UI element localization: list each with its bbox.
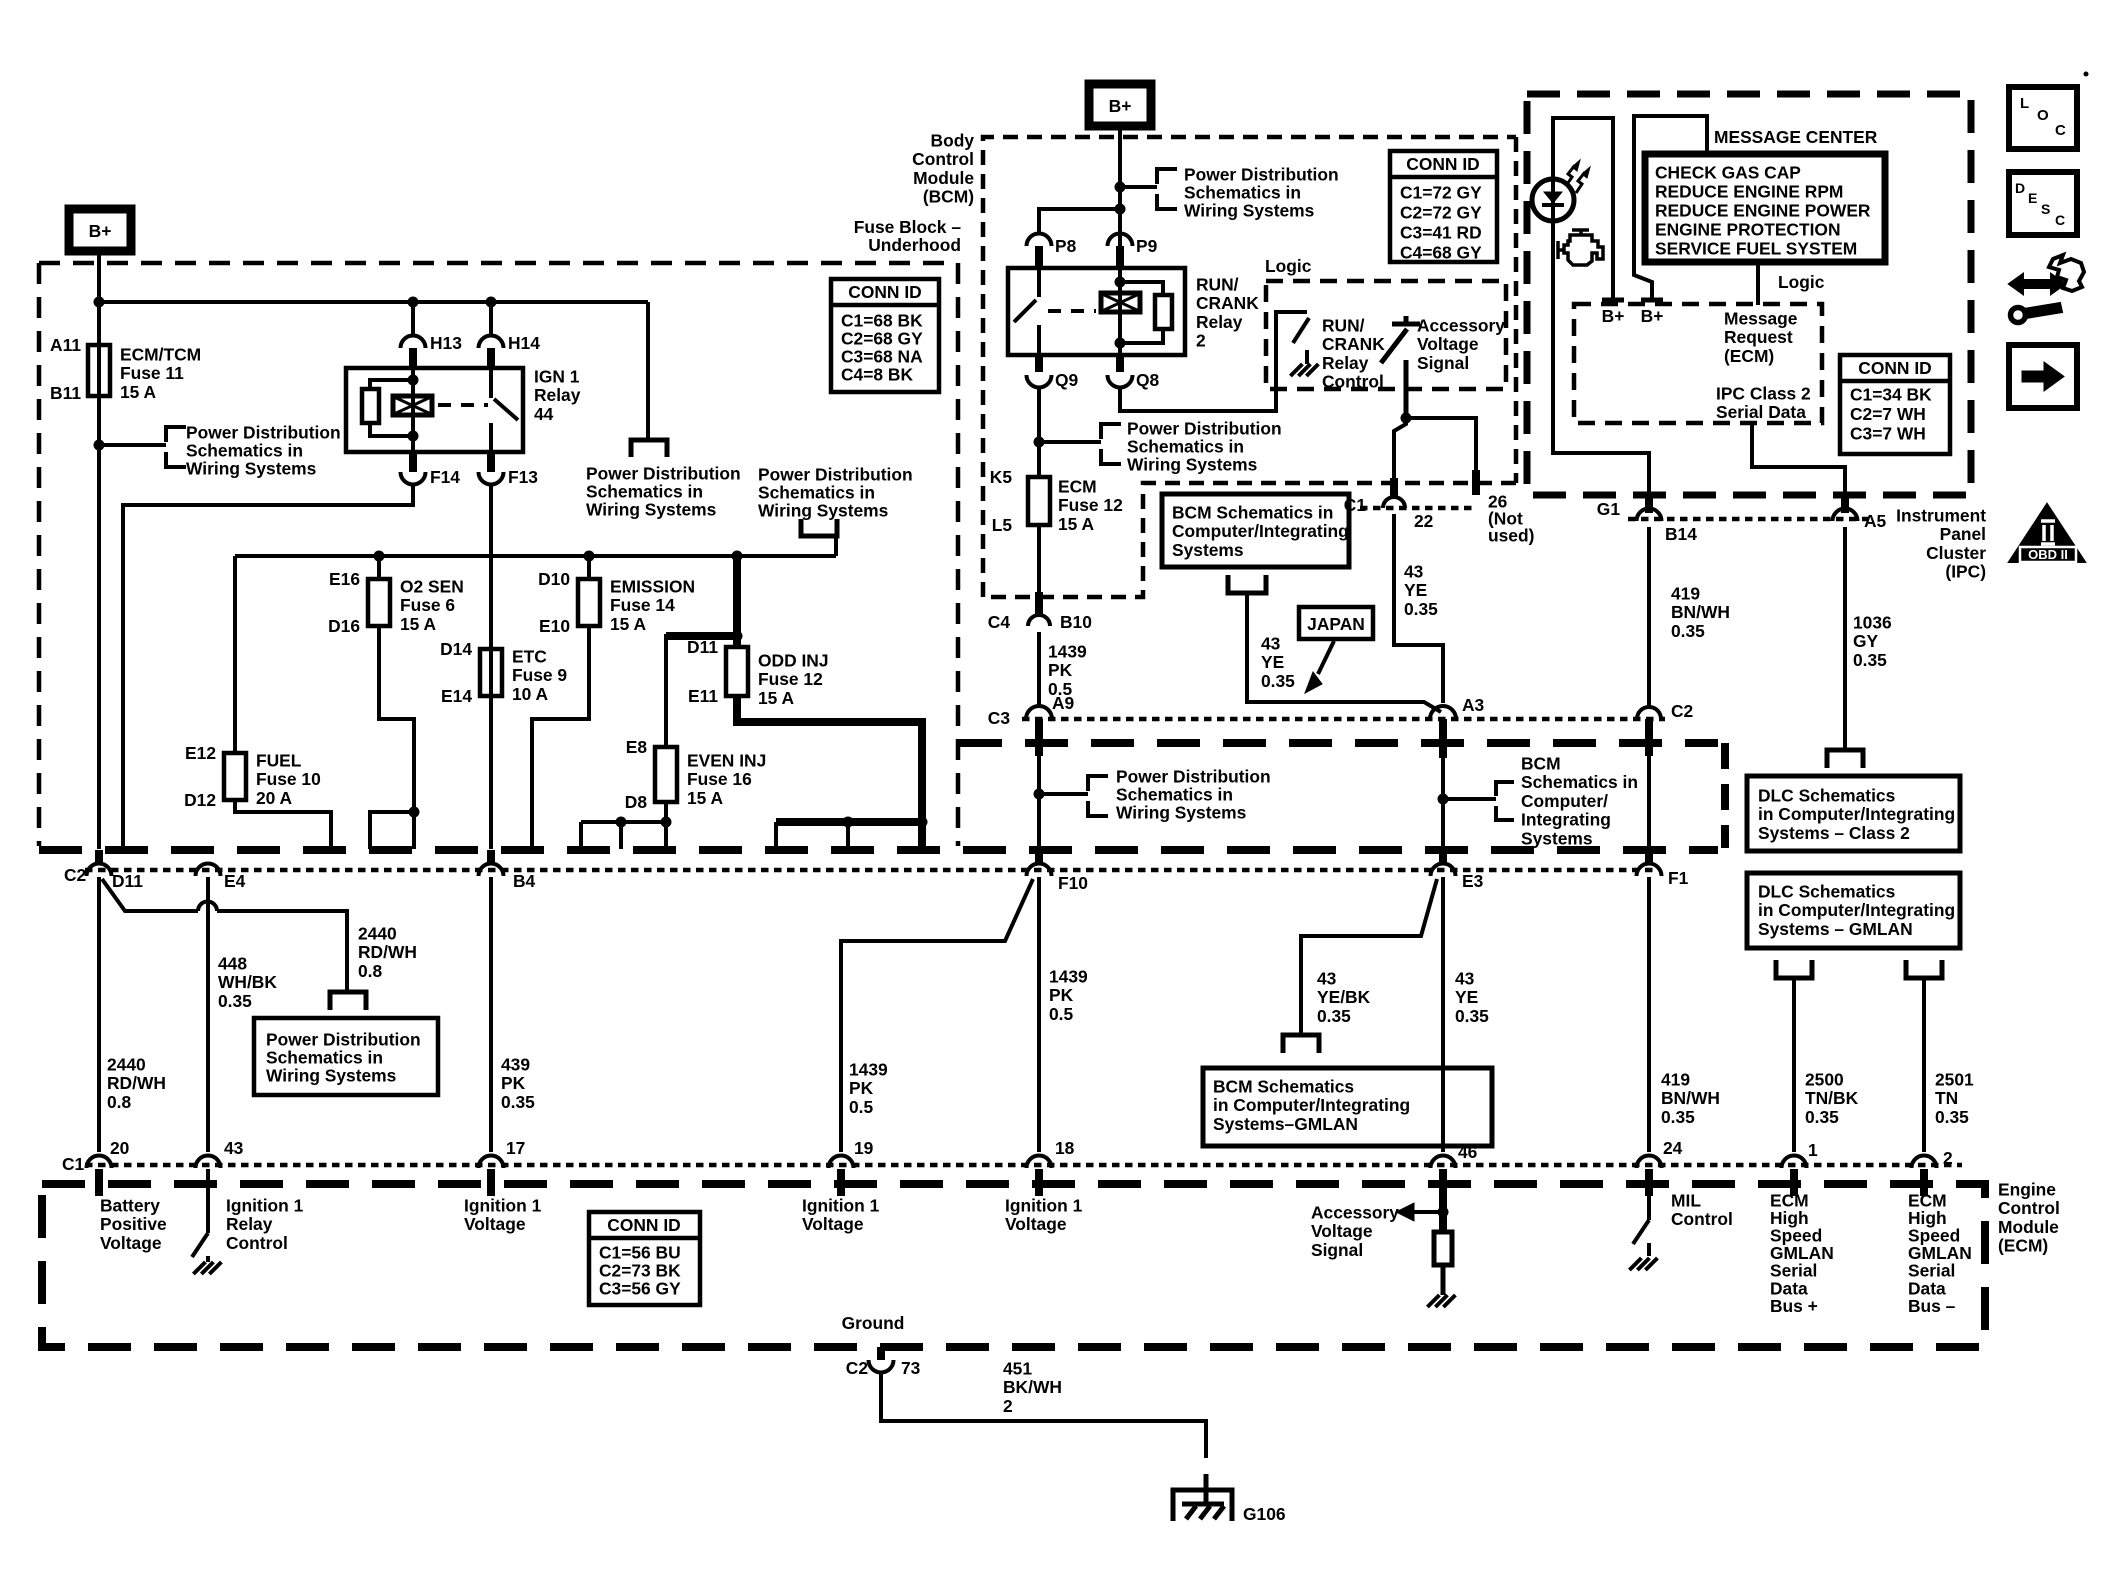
svg-text:C: C xyxy=(2055,122,2066,139)
svg-text:Power Distribution: Power Distribution xyxy=(1127,418,1282,438)
svg-text:H14: H14 xyxy=(508,333,540,353)
svg-text:A3: A3 xyxy=(1462,695,1485,715)
connector C1 pin 22 xyxy=(1390,478,1398,499)
svg-text:IGN 1: IGN 1 xyxy=(534,366,580,386)
icon: LOC box xyxy=(2009,87,2077,149)
svg-text:used): used) xyxy=(1488,525,1534,545)
relay coil (crossed box) xyxy=(1101,293,1140,312)
dotted connector row: junction block upper row C2 (D11,E4,B4,F10,E3,F1) xyxy=(85,868,1655,873)
wire: B+ down to bus xyxy=(97,251,101,302)
svg-text:B+: B+ xyxy=(1641,306,1664,326)
callout box JAPAN xyxy=(1299,607,1373,639)
svg-text:Fuse 12: Fuse 12 xyxy=(758,669,823,689)
svg-text:H13: H13 xyxy=(430,333,462,353)
wire: Q8 to logic run/crank relay control xyxy=(1120,312,1307,411)
svg-text:Message: Message xyxy=(1724,308,1798,328)
wire: accessory voltage signal inside ECM xyxy=(1439,1196,1447,1232)
svg-text:1036: 1036 xyxy=(1853,612,1892,632)
svg-text:1439: 1439 xyxy=(849,1059,888,1079)
staple: bus feed from power distribution xyxy=(801,519,837,536)
connector table CONN ID (BCM) xyxy=(1390,151,1497,262)
svg-text:0.35: 0.35 xyxy=(1317,1006,1351,1026)
svg-text:CRANK: CRANK xyxy=(1322,334,1385,354)
icon: data link connector glyph xyxy=(2009,274,2065,294)
bracket: power distribution pointer (BCM top) xyxy=(1157,169,1177,184)
node: accessory arrow tap xyxy=(1438,1207,1449,1218)
svg-text:C2=68 GY: C2=68 GY xyxy=(841,328,923,348)
connector pin 24 xyxy=(1637,1155,1662,1168)
staple: DLC GMLAN bus + output xyxy=(1776,960,1812,978)
icon: OBD II triangle xyxy=(2009,504,2085,562)
svg-text:C1=68 BK: C1=68 BK xyxy=(841,310,923,330)
svg-text:20 A: 20 A xyxy=(256,788,293,808)
svg-text:in Computer/Integrating: in Computer/Integrating xyxy=(1758,804,1955,824)
relay switch fixed contact to F13 xyxy=(489,423,493,451)
wire: resistor to ground xyxy=(1441,1265,1446,1295)
connector C4/B10 xyxy=(1035,592,1043,614)
heavy dashed bottom boundary of fuse block / BCM pass-through strip xyxy=(39,846,1718,854)
svg-text:Fuse Block –: Fuse Block – xyxy=(854,217,962,237)
svg-text:RD/WH: RD/WH xyxy=(358,942,417,962)
wire: E3 diagonal branch to BCM GMLAN staple xyxy=(1301,879,1437,1033)
svg-text:Cluster: Cluster xyxy=(1926,543,1986,563)
svg-text:D10: D10 xyxy=(538,569,570,589)
ground G106 symbol xyxy=(1173,1490,1232,1521)
engine icon xyxy=(1572,228,1589,232)
svg-text:2500: 2500 xyxy=(1805,1069,1844,1089)
svg-text:0.5: 0.5 xyxy=(849,1097,874,1117)
svg-text:C2=7 WH: C2=7 WH xyxy=(1850,404,1926,424)
svg-text:CONN ID: CONN ID xyxy=(1406,154,1479,174)
node: tap to power distribution bracket xyxy=(94,440,105,451)
svg-text:Schematics in: Schematics in xyxy=(1116,784,1233,804)
heavy dashed top of BCM pass-through strip xyxy=(959,739,1718,747)
svg-text:P9: P9 xyxy=(1136,236,1158,256)
svg-text:Module: Module xyxy=(913,168,974,188)
svg-text:OBD II: OBD II xyxy=(2028,547,2068,562)
wire: even out bar xyxy=(581,820,666,824)
svg-text:Ignition 1: Ignition 1 xyxy=(464,1195,542,1215)
svg-text:YE: YE xyxy=(1404,580,1427,600)
svg-text:EVEN INJ: EVEN INJ xyxy=(687,750,766,770)
connector E4 on junction row xyxy=(196,864,221,877)
svg-text:Power Distribution: Power Distribution xyxy=(266,1029,421,1049)
wire: EMISSION out jog xyxy=(532,626,589,849)
switch: ignition 1 relay control driver xyxy=(206,1169,210,1233)
svg-text:0.35: 0.35 xyxy=(501,1092,535,1112)
wire: E4 down to ECM pin 43 xyxy=(206,877,210,1152)
svg-text:Relay: Relay xyxy=(1322,353,1369,373)
node: EVEN INJ branch xyxy=(732,631,743,642)
svg-text:1: 1 xyxy=(1808,1140,1818,1160)
svg-text:Wiring Systems: Wiring Systems xyxy=(1116,802,1246,822)
svg-text:Voltage: Voltage xyxy=(1311,1221,1373,1241)
svg-text:P8: P8 xyxy=(1055,236,1077,256)
svg-text:73: 73 xyxy=(901,1358,921,1378)
svg-text:E10: E10 xyxy=(539,616,570,636)
staple: to DLC class 2 schematics xyxy=(1827,750,1863,768)
svg-text:A9: A9 xyxy=(1052,693,1075,713)
connector G1/B14 xyxy=(1645,493,1653,513)
staple: DLC GMLAN bus - output xyxy=(1906,960,1942,978)
connector pin 2 xyxy=(1912,1155,1937,1168)
svg-text:Fuse 9: Fuse 9 xyxy=(512,665,567,685)
svg-text:Schematics in: Schematics in xyxy=(266,1047,383,1067)
svg-text:Voltage: Voltage xyxy=(100,1233,162,1253)
wire: serial data to A5 xyxy=(1752,423,1845,496)
wire: D11 diagonal branch to E4 bus xyxy=(102,879,198,911)
svg-text:C4: C4 xyxy=(988,612,1011,632)
wire: C3 down to F10 xyxy=(1037,754,1041,864)
svg-text:Schematics in: Schematics in xyxy=(186,440,303,460)
svg-text:Computer/Integrating: Computer/Integrating xyxy=(1172,521,1349,541)
svg-text:in Computer/Integrating: in Computer/Integrating xyxy=(1758,900,1955,920)
accessory voltage signal switch symbol xyxy=(1392,322,1420,327)
svg-text:18: 18 xyxy=(1055,1138,1075,1158)
svg-text:B11: B11 xyxy=(50,383,81,403)
relay switch blade xyxy=(494,399,518,420)
svg-text:(ECM): (ECM) xyxy=(1998,1236,2048,1256)
wire: A5 down to DLC staple xyxy=(1843,527,1847,749)
svg-text:Positive: Positive xyxy=(100,1214,167,1234)
bracket: power distribution pointer (junction strip) xyxy=(1088,776,1108,791)
node: even bar junction xyxy=(661,817,672,828)
connector pin 19 xyxy=(829,1155,854,1168)
svg-text:0.35: 0.35 xyxy=(1455,1006,1489,1026)
svg-text:2501: 2501 xyxy=(1935,1069,1974,1089)
svg-text:L5: L5 xyxy=(992,515,1013,535)
svg-text:Serial Data: Serial Data xyxy=(1716,402,1806,422)
svg-text:Fuse 6: Fuse 6 xyxy=(400,595,455,615)
svg-text:BCM: BCM xyxy=(1521,753,1561,773)
svg-text:Power Distribution: Power Distribution xyxy=(758,464,913,484)
node: accessory branch xyxy=(1401,413,1412,424)
dotted connector row: BCM C1 pins 22/26 xyxy=(1360,506,1472,511)
wire: bus- down to ECM pin 2 xyxy=(1922,978,1926,1152)
svg-text:G1: G1 xyxy=(1597,499,1621,519)
svg-text:E11: E11 xyxy=(688,686,718,706)
svg-text:0.35: 0.35 xyxy=(1853,650,1887,670)
connector C2 pin 73 (ground) xyxy=(877,1347,885,1360)
LED light arrows xyxy=(1566,165,1575,186)
svg-text:22: 22 xyxy=(1414,511,1433,531)
svg-text:Wiring Systems: Wiring Systems xyxy=(586,499,716,519)
wire: ground lower stub xyxy=(1204,1474,1209,1492)
wire: bus drop to off-page staple xyxy=(646,302,650,440)
svg-text:C3=41 RD: C3=41 RD xyxy=(1400,222,1482,242)
merge bump at E4 wire xyxy=(198,902,217,912)
arrow: JAPAN callout xyxy=(1318,641,1334,674)
svg-text:43: 43 xyxy=(1317,968,1337,988)
svg-text:0.8: 0.8 xyxy=(107,1092,132,1112)
relay linkage dashes xyxy=(1048,309,1096,313)
staple: E4 branch to power distribution box xyxy=(330,992,366,1010)
fuse F14e EMISSION 15A (D10/E10) xyxy=(587,556,591,579)
node: tap to PDS bracket xyxy=(1115,182,1126,193)
svg-text:1439: 1439 xyxy=(1048,641,1087,661)
svg-text:BCM Schematics in: BCM Schematics in xyxy=(1172,502,1333,522)
icon: right arrow box xyxy=(2009,345,2077,408)
svg-text:Systems – GMLAN: Systems – GMLAN xyxy=(1758,919,1913,939)
module box: Instrument Panel Cluster IPC (heavy dashed) xyxy=(1527,94,1971,495)
svg-text:Control: Control xyxy=(226,1233,288,1253)
svg-text:1439: 1439 xyxy=(1049,966,1088,986)
svg-text:BN/WH: BN/WH xyxy=(1671,602,1730,622)
svg-text:YE: YE xyxy=(1261,652,1284,672)
svg-text:Computer/: Computer/ xyxy=(1521,791,1608,811)
module box: Engine Control Module ECM (heavy dashed) xyxy=(42,1184,1985,1347)
svg-text:Logic: Logic xyxy=(1778,272,1825,292)
staple: BCM schematics pointer xyxy=(1228,575,1266,593)
svg-text:C1=34 BK: C1=34 BK xyxy=(1850,384,1932,404)
svg-text:Logic: Logic xyxy=(1265,256,1312,276)
svg-text:Q8: Q8 xyxy=(1136,370,1160,390)
svg-text:0.8: 0.8 xyxy=(358,961,383,981)
svg-text:E8: E8 xyxy=(626,737,648,757)
resistor: accessory pull xyxy=(1434,1232,1452,1265)
node: coil bottom xyxy=(408,431,419,442)
wire: E4 horizontal to PDS drop xyxy=(217,911,347,990)
svg-text:MIL: MIL xyxy=(1671,1190,1701,1210)
wire: accessory to C1 pin 22 xyxy=(1394,418,1406,478)
svg-text:C1: C1 xyxy=(62,1154,85,1174)
svg-text:Wiring Systems: Wiring Systems xyxy=(758,500,888,520)
svg-text:B+: B+ xyxy=(1109,96,1132,116)
run/crank relay control switch blade xyxy=(1293,318,1309,343)
svg-text:Relay: Relay xyxy=(1196,312,1243,332)
svg-text:43: 43 xyxy=(1404,561,1424,581)
connector F13 xyxy=(487,452,495,472)
wire: FUEL fuse column xyxy=(233,556,237,753)
svg-text:D11: D11 xyxy=(687,637,718,657)
connector table CONN ID (fuse block) xyxy=(831,279,939,392)
wire: A3 down to E3 xyxy=(1441,756,1445,864)
svg-text:G106: G106 xyxy=(1243,1504,1286,1524)
svg-text:O: O xyxy=(2037,107,2049,124)
connector F1 xyxy=(1645,850,1653,864)
svg-text:15 A: 15 A xyxy=(400,614,437,634)
svg-text:MESSAGE CENTER: MESSAGE CENTER xyxy=(1714,127,1878,147)
connector B4 on junction row xyxy=(487,850,495,864)
svg-text:Accessory: Accessory xyxy=(1311,1202,1399,1222)
svg-text:C2=72 GY: C2=72 GY xyxy=(1400,202,1482,222)
connector C2/D11 on junction row xyxy=(95,850,103,864)
svg-text:EMISSION: EMISSION xyxy=(610,576,695,596)
wire: IPC B+ 1 riser with LED xyxy=(1553,118,1649,496)
svg-text:Schematics in: Schematics in xyxy=(1184,182,1301,202)
svg-text:DLC Schematics: DLC Schematics xyxy=(1758,881,1895,901)
wire: branch to P8 xyxy=(1039,209,1120,234)
node: EMISSION tap xyxy=(584,551,595,562)
fuse F16 EVEN INJ 15A (E8/D8) xyxy=(655,747,677,802)
relay coil (crossed box) xyxy=(393,396,432,415)
svg-text:Engine: Engine xyxy=(1998,1179,2056,1199)
svg-text:Ground: Ground xyxy=(842,1313,905,1333)
svg-text:43: 43 xyxy=(1261,633,1281,653)
svg-text:S: S xyxy=(2041,201,2050,217)
wire: H13 drop xyxy=(411,302,415,336)
svg-text:0.5: 0.5 xyxy=(1049,1004,1074,1024)
svg-text:Panel: Panel xyxy=(1940,524,1986,544)
svg-text:Voltage: Voltage xyxy=(464,1214,526,1234)
svg-text:E: E xyxy=(2028,190,2037,206)
svg-text:Power Distribution: Power Distribution xyxy=(186,422,341,442)
svg-text:C2: C2 xyxy=(1671,701,1693,721)
wire: B4 down to ECM pin 17 xyxy=(489,877,493,1152)
indicator LED (MIL) circle xyxy=(1532,179,1574,221)
svg-text:15 A: 15 A xyxy=(120,382,157,402)
connector P9 xyxy=(1108,234,1133,247)
svg-text:RUN/: RUN/ xyxy=(1196,274,1239,294)
wire: FUEL fuse out xyxy=(235,800,331,849)
fuse F12o ODD INJ 15A (D11/E11) xyxy=(726,647,748,696)
wire: H14 drop xyxy=(489,302,493,336)
svg-text:Wiring Systems: Wiring Systems xyxy=(266,1065,396,1085)
svg-text:E14: E14 xyxy=(441,686,472,706)
svg-text:Bus –: Bus – xyxy=(1908,1296,1956,1316)
svg-text:CRANK: CRANK xyxy=(1196,293,1259,313)
svg-text:REDUCE ENGINE POWER: REDUCE ENGINE POWER xyxy=(1655,200,1871,220)
svg-text:E16: E16 xyxy=(329,569,360,589)
connector E3 xyxy=(1439,850,1447,864)
label box: BCM Schematics in Computer/Integrating Systems xyxy=(1162,494,1349,567)
svg-text:REDUCE ENGINE RPM: REDUCE ENGINE RPM xyxy=(1655,181,1843,201)
connector pin 1 xyxy=(1782,1155,1807,1168)
node: tap to P8 xyxy=(1115,204,1126,215)
IPC logic dashed box xyxy=(1574,304,1822,423)
svg-text:L: L xyxy=(2020,95,2029,112)
connector A5 xyxy=(1841,493,1849,513)
node: junction B+ bus xyxy=(94,297,105,308)
wire: F13 down to B4 column xyxy=(489,483,493,849)
node: O2 SEN tap xyxy=(374,551,385,562)
svg-text:C4=8 BK: C4=8 BK xyxy=(841,364,913,384)
connector table CONN ID (ECM) xyxy=(589,1212,700,1305)
bracket: power distribution schematics pointer xyxy=(166,427,186,442)
connector pin 18 xyxy=(1027,1155,1052,1168)
svg-text:Fuse 10: Fuse 10 xyxy=(256,769,321,789)
node: even bar tap xyxy=(616,817,627,828)
svg-text:D12: D12 xyxy=(184,790,216,810)
power symbol B+ (BCM feed) xyxy=(1089,84,1151,126)
svg-text:2440: 2440 xyxy=(107,1054,146,1074)
svg-text:Fuse 16: Fuse 16 xyxy=(687,769,752,789)
connector P8 xyxy=(1027,234,1052,247)
svg-text:O2 SEN: O2 SEN xyxy=(400,576,464,596)
svg-text:E12: E12 xyxy=(185,743,216,763)
wire: D11 down to ECM pin 20 xyxy=(97,877,101,1152)
svg-text:Underhood: Underhood xyxy=(868,235,961,255)
svg-text:B+: B+ xyxy=(1602,306,1625,326)
svg-text:43: 43 xyxy=(1455,968,1475,988)
wire: even bar drops xyxy=(579,822,583,849)
svg-text:0.35: 0.35 xyxy=(1671,621,1705,641)
svg-text:Schematics in: Schematics in xyxy=(586,481,703,501)
wire: B+ down into BCM xyxy=(1118,126,1122,269)
svg-text:Relay: Relay xyxy=(534,385,581,405)
svg-text:B+: B+ xyxy=(89,221,112,241)
svg-text:Request: Request xyxy=(1724,327,1793,347)
svg-text:Integrating: Integrating xyxy=(1521,810,1611,830)
svg-text:F14: F14 xyxy=(430,467,460,487)
svg-text:43: 43 xyxy=(224,1138,244,1158)
svg-text:2: 2 xyxy=(1943,1148,1953,1168)
wire: branch to EVEN INJ fuse xyxy=(666,632,737,640)
svg-text:CONN ID: CONN ID xyxy=(607,1215,680,1235)
svg-text:PK: PK xyxy=(849,1078,874,1098)
svg-text:F1: F1 xyxy=(1668,868,1689,888)
svg-text:TN: TN xyxy=(1935,1088,1958,1108)
wire: accessory signal down xyxy=(1404,360,1409,418)
svg-text:Schematics in: Schematics in xyxy=(758,482,875,502)
wire: fuse feed bus xyxy=(235,554,836,558)
svg-text:Fuse 12: Fuse 12 xyxy=(1058,495,1123,515)
connector F10 xyxy=(1035,850,1043,864)
svg-text:D: D xyxy=(2015,180,2025,196)
svg-text:CONN ID: CONN ID xyxy=(1858,358,1931,378)
svg-text:419: 419 xyxy=(1671,583,1700,603)
label box: DLC Schematics Class 2 xyxy=(1747,776,1960,851)
svg-text:ETC: ETC xyxy=(512,646,547,666)
svg-text:Signal: Signal xyxy=(1311,1240,1363,1260)
svg-text:ECM: ECM xyxy=(1058,476,1097,496)
svg-text:C1=72 GY: C1=72 GY xyxy=(1400,182,1482,202)
svg-text:Accessory: Accessory xyxy=(1417,315,1505,335)
connector pin 17 xyxy=(479,1155,504,1168)
svg-text:F13: F13 xyxy=(508,467,538,487)
wire: message box bottom to logic xyxy=(1756,262,1760,305)
fuse F11 ECM/TCM 15A (A11/B11) xyxy=(88,345,110,396)
svg-text:Wiring Systems: Wiring Systems xyxy=(186,458,316,478)
message center box (thick border) xyxy=(1645,154,1885,262)
wire: fuse 12 down to C4 xyxy=(1037,525,1041,592)
wire: 1439 PK to C3 xyxy=(1037,632,1041,706)
svg-text:(BCM): (BCM) xyxy=(923,187,974,207)
svg-text:Module: Module xyxy=(1998,1217,2059,1237)
wire: 43 YE from pin22 down to A3 xyxy=(1394,514,1443,703)
svg-text:Instrument: Instrument xyxy=(1896,505,1986,525)
wire: O2 out branch stub xyxy=(370,812,414,849)
svg-text:C3=7 WH: C3=7 WH xyxy=(1850,423,1926,443)
dotted connector row: IPC pins G1/A5 xyxy=(1628,517,1868,522)
svg-text:C3=68 NA: C3=68 NA xyxy=(841,346,923,366)
svg-text:C2: C2 xyxy=(64,865,86,885)
fuse F10 FUEL 20A (E12/D12) xyxy=(224,753,246,800)
wire: message box loop to B+ 2 xyxy=(1634,116,1707,300)
wire: F14 out down-left-down xyxy=(123,483,413,849)
fuse F9 ETC 10A (D14/E14) xyxy=(480,649,502,696)
svg-text:ODD INJ: ODD INJ xyxy=(758,650,829,670)
svg-text:451: 451 xyxy=(1003,1358,1032,1378)
label box: Power Distribution Schematics in Wiring Systems xyxy=(254,1018,438,1095)
wire: F10 down to ECM pin 18 xyxy=(1037,877,1041,1152)
svg-text:24: 24 xyxy=(1663,1138,1683,1158)
svg-text:Relay: Relay xyxy=(226,1214,273,1234)
svg-text:Bus +: Bus + xyxy=(1770,1296,1818,1316)
svg-text:0.35: 0.35 xyxy=(1805,1107,1839,1127)
svg-text:C3=56 GY: C3=56 GY xyxy=(599,1278,681,1298)
relay linkage dashes xyxy=(438,403,488,407)
svg-text:D8: D8 xyxy=(625,792,648,812)
svg-text:PK: PK xyxy=(1049,985,1074,1005)
svg-text:20: 20 xyxy=(110,1138,129,1158)
svg-text:Control: Control xyxy=(1998,1198,2060,1218)
svg-text:15 A: 15 A xyxy=(687,788,724,808)
svg-text:YE/BK: YE/BK xyxy=(1317,987,1371,1007)
svg-text:Control: Control xyxy=(912,149,974,169)
svg-text:Fuse 11: Fuse 11 xyxy=(120,363,184,383)
svg-text:19: 19 xyxy=(854,1138,874,1158)
